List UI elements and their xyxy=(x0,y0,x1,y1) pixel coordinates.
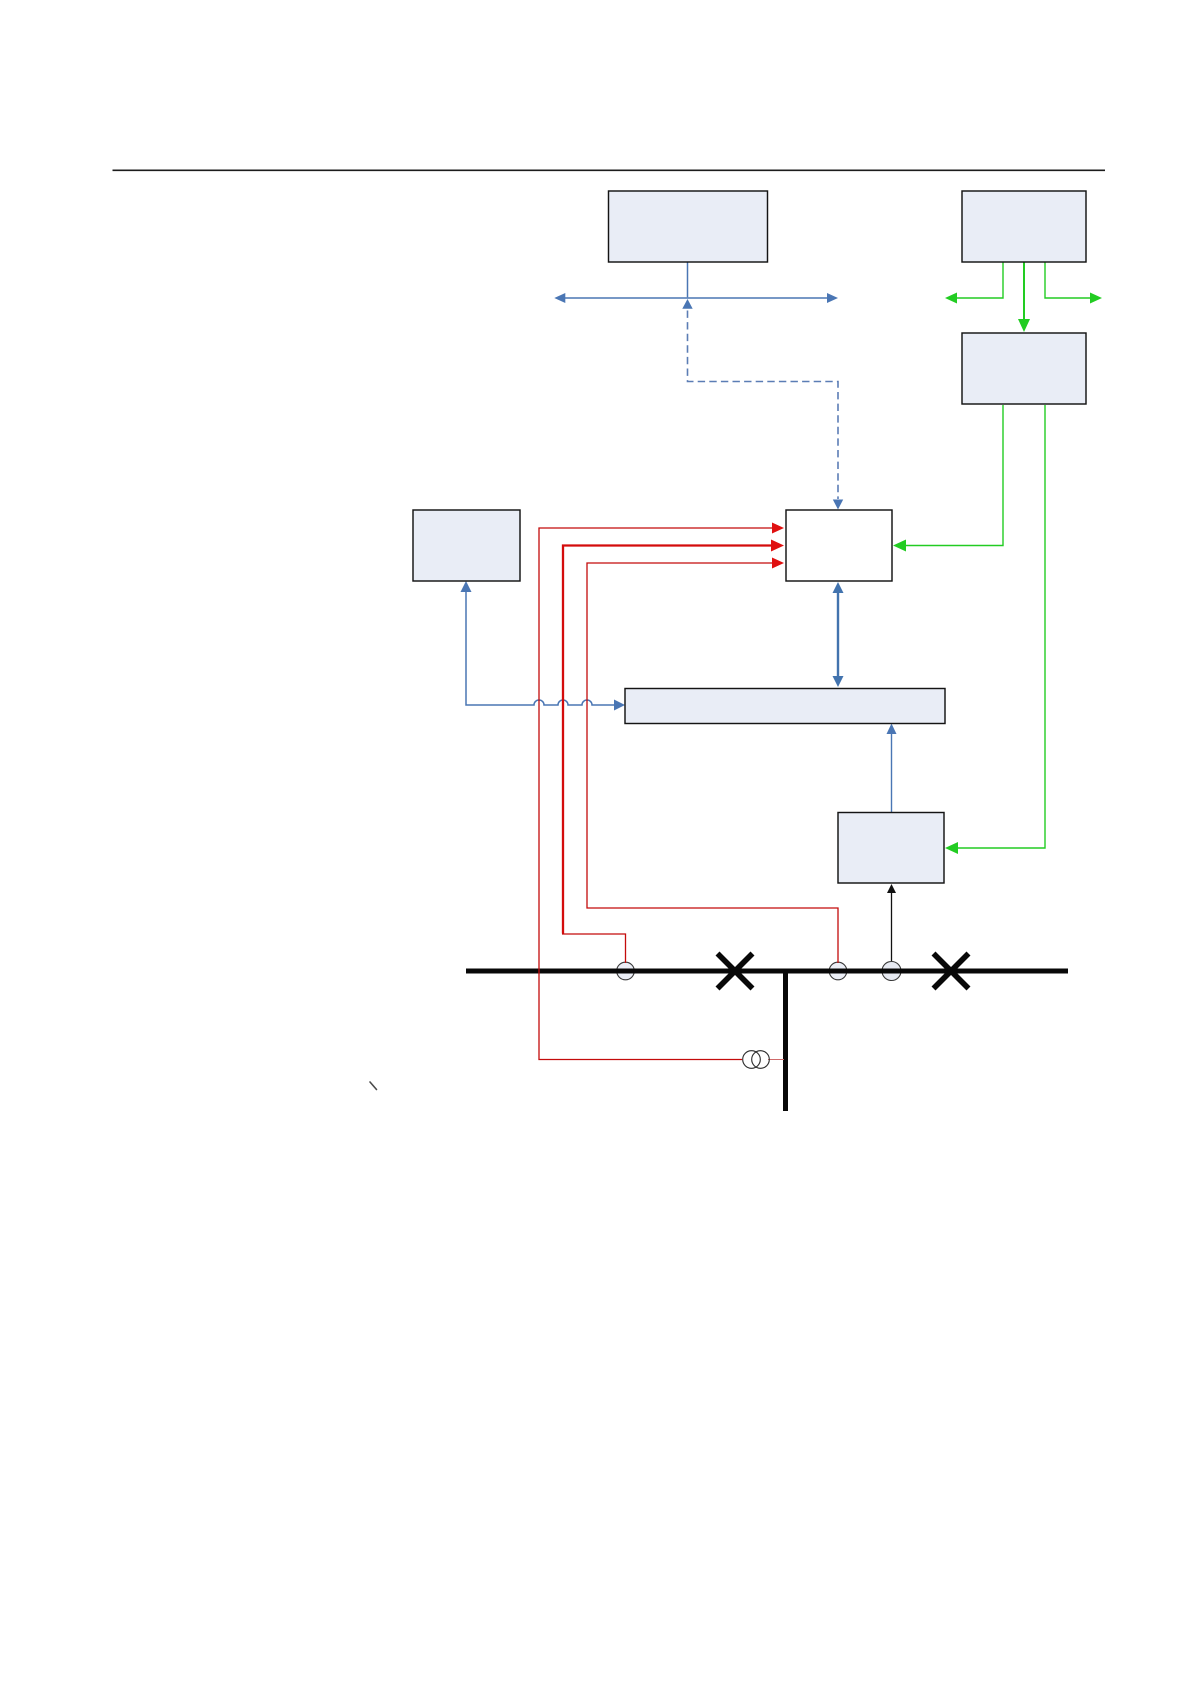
faint red connector from VT to feeder xyxy=(768,1059,784,1061)
stray tick mark xyxy=(370,1082,377,1090)
busbar (thick horizontal) xyxy=(466,969,1068,974)
voltage transformer VT (two overlapping circles) xyxy=(743,1051,761,1069)
box B3 (right block under B2) xyxy=(962,333,1086,404)
arrowhead green into box B5 right edge xyxy=(893,540,906,552)
wire: red line B thin tail to CT1 circle xyxy=(562,934,626,963)
wire: green link from box B3 to box B7 xyxy=(957,405,1045,848)
arrowhead down at B6 top xyxy=(833,676,844,687)
arrowhead right into box B6 left edge xyxy=(614,700,625,711)
wire: red line C (CT2 secondary circuit to protection box B5) xyxy=(587,563,838,963)
header rule xyxy=(113,169,1106,171)
wire: black arrow from bus sensor node to box B7 bottom xyxy=(891,891,893,962)
wire: green stub middle from box B2 into box B3 xyxy=(1023,262,1025,321)
arrowhead blue left tip of station bus xyxy=(554,293,565,303)
arrowhead up into box B4 bottom xyxy=(461,581,472,592)
wire: green stub right from box B2 xyxy=(1045,262,1091,298)
node: CT1 circle on busbar xyxy=(617,962,635,980)
wire: green link from box B3 to box B5 xyxy=(905,405,1003,546)
arrowhead green down into box B3 xyxy=(1018,319,1030,332)
box B7 (lower block) xyxy=(838,813,944,884)
arrowhead dashed link up (at station bus) xyxy=(682,299,692,309)
arrowhead green left xyxy=(945,293,957,304)
box B1 (top left block) xyxy=(609,191,768,262)
box B2 (top right block) xyxy=(962,191,1086,262)
wire: red line A (VT secondary circuit to protection box B5) xyxy=(539,528,775,1060)
node: CT2 circle on busbar xyxy=(829,962,847,980)
box B4 (left block) xyxy=(413,510,520,581)
wire: green stub left from box B2 xyxy=(956,262,1003,298)
wire: blue thick double arrow between B5 and B6 xyxy=(837,591,839,678)
box B5 (central white block) xyxy=(786,510,892,581)
arrowhead red into B5 port 3 xyxy=(772,558,784,569)
breaker X1 on busbar xyxy=(720,956,751,987)
arrowhead green right xyxy=(1090,293,1102,304)
arrowhead green into box B7 right edge xyxy=(945,842,958,854)
arrowhead up into box B6 bottom xyxy=(887,724,897,735)
arrowhead red into B5 port 1 xyxy=(772,523,784,534)
wire: blue dashed link (station bus to box B5) xyxy=(688,311,839,500)
branch feeder (thick vertical) xyxy=(783,969,788,1111)
wire: blue arrow from box B7 top to box B6 bottom xyxy=(891,733,893,813)
wire: blue stub from box B1 bottom xyxy=(687,262,689,297)
node: sensor circle on busbar xyxy=(882,962,901,981)
arrowhead dashed link down (at box B5 top) xyxy=(833,500,843,510)
wire: blue bent arrow from box B4 to box B6 with hops over red lines xyxy=(466,583,616,705)
arrowhead up at B5 bottom xyxy=(833,582,844,593)
breaker X2 on busbar xyxy=(936,956,967,987)
wire: red line B thick (CT1 secondary circuit to protection box B5) xyxy=(563,546,774,934)
arrowhead red into B5 port 2 xyxy=(771,540,784,552)
arrowhead blue right tip of station bus xyxy=(827,293,838,303)
box B6 (long bar block) xyxy=(625,689,945,724)
wire: blue horizontal double arrow (station bus) xyxy=(564,297,829,299)
arrowhead black up into box B7 bottom xyxy=(887,884,896,893)
